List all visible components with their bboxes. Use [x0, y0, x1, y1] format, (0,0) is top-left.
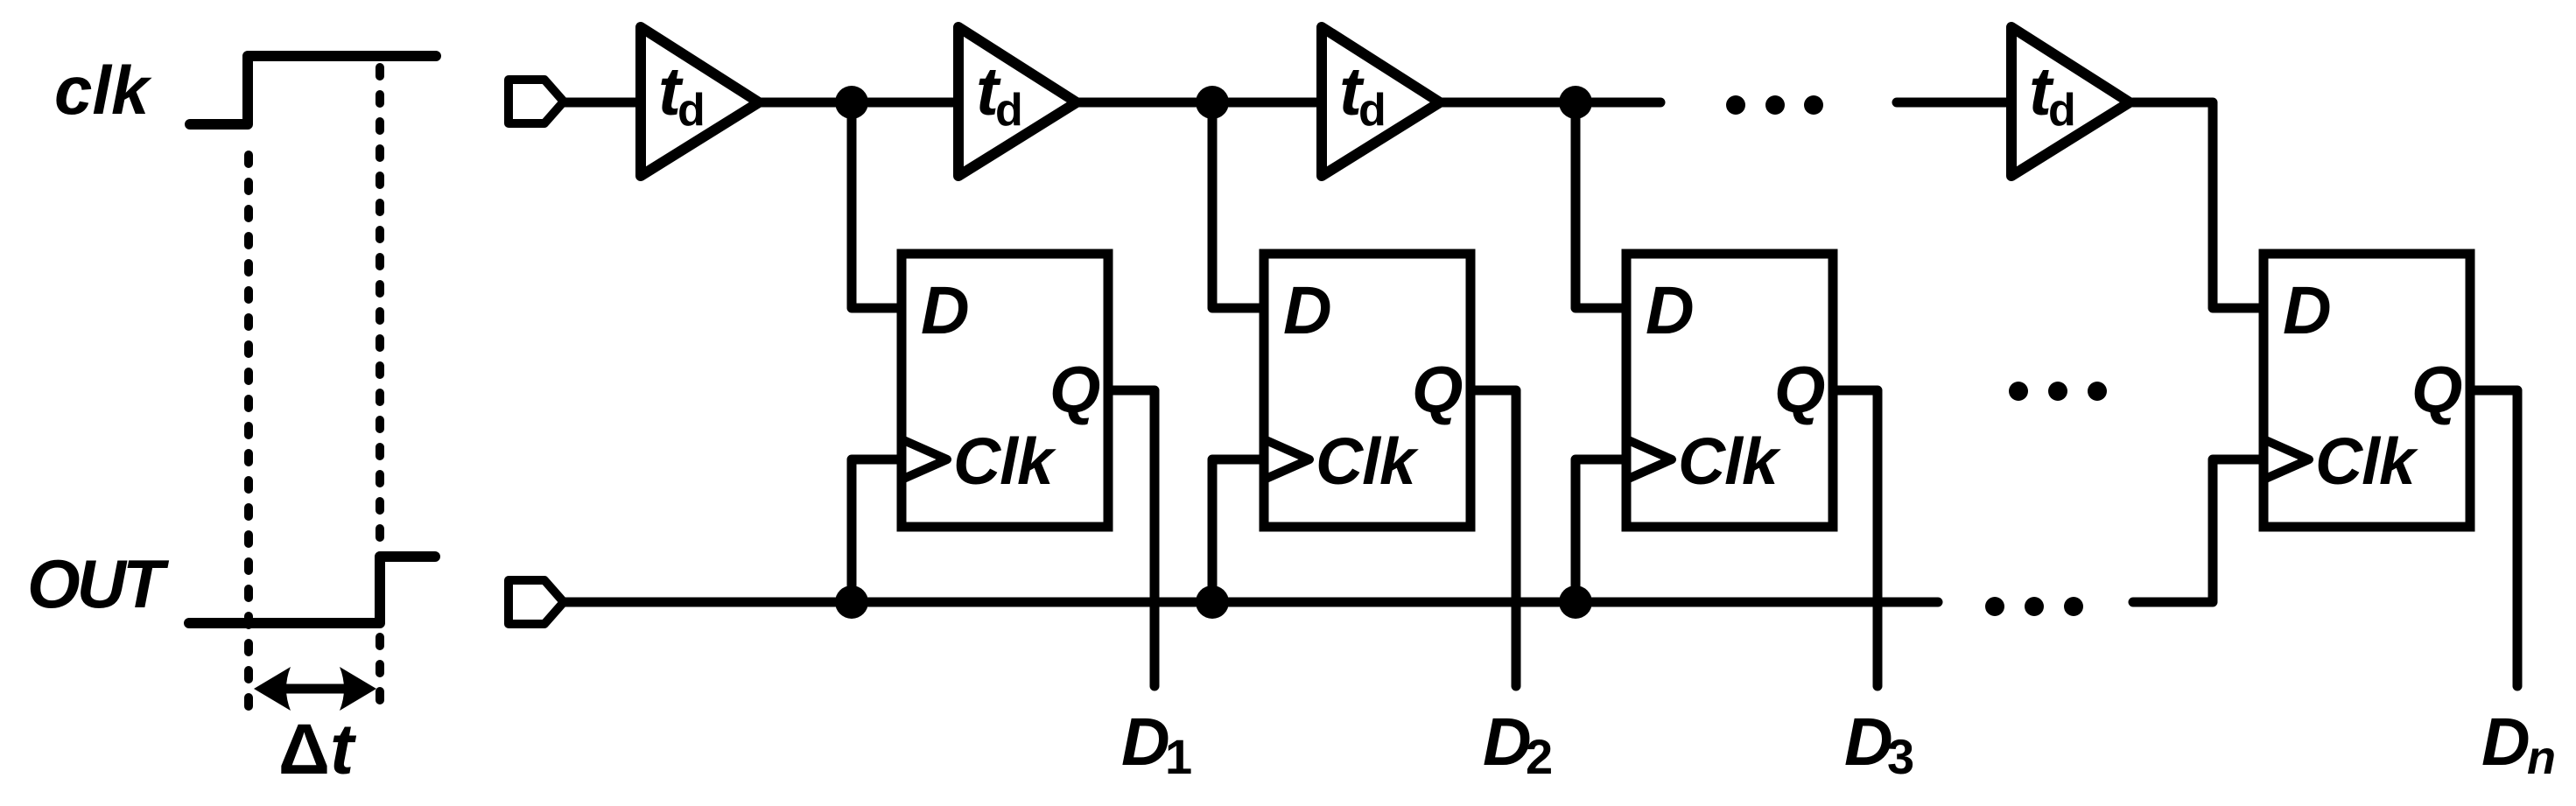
svg-text:D: D [1283, 273, 1332, 348]
svg-text:D: D [1121, 704, 1170, 780]
svg-text:D: D [921, 273, 970, 348]
svg-text:D: D [1483, 704, 1532, 780]
svg-text:OUT: OUT [27, 545, 170, 622]
svg-text:Q: Q [1049, 353, 1100, 426]
svg-text:d: d [2048, 85, 2076, 136]
svg-text:clk: clk [54, 52, 152, 129]
svg-text:D: D [2481, 704, 2530, 780]
svg-text:Clk: Clk [1316, 424, 1419, 498]
svg-text:d: d [677, 85, 705, 136]
svg-text:D: D [1646, 273, 1695, 348]
svg-text:3: 3 [1887, 729, 1914, 784]
svg-text:Clk: Clk [953, 424, 1056, 498]
svg-text:Q: Q [2411, 353, 2462, 426]
svg-text:Clk: Clk [2315, 424, 2418, 498]
svg-text:Δ: Δ [278, 710, 330, 789]
svg-text:Q: Q [1774, 353, 1825, 426]
svg-text:n: n [2527, 732, 2556, 784]
svg-text:D: D [1844, 704, 1893, 780]
svg-text:1: 1 [1165, 729, 1192, 784]
svg-text:D: D [2283, 273, 2332, 348]
svg-text:d: d [995, 85, 1023, 136]
svg-text:Q: Q [1412, 353, 1463, 426]
svg-text:d: d [1358, 85, 1386, 136]
svg-text:2: 2 [1526, 729, 1553, 784]
svg-text:t: t [330, 710, 357, 789]
svg-text:Clk: Clk [1678, 424, 1781, 498]
